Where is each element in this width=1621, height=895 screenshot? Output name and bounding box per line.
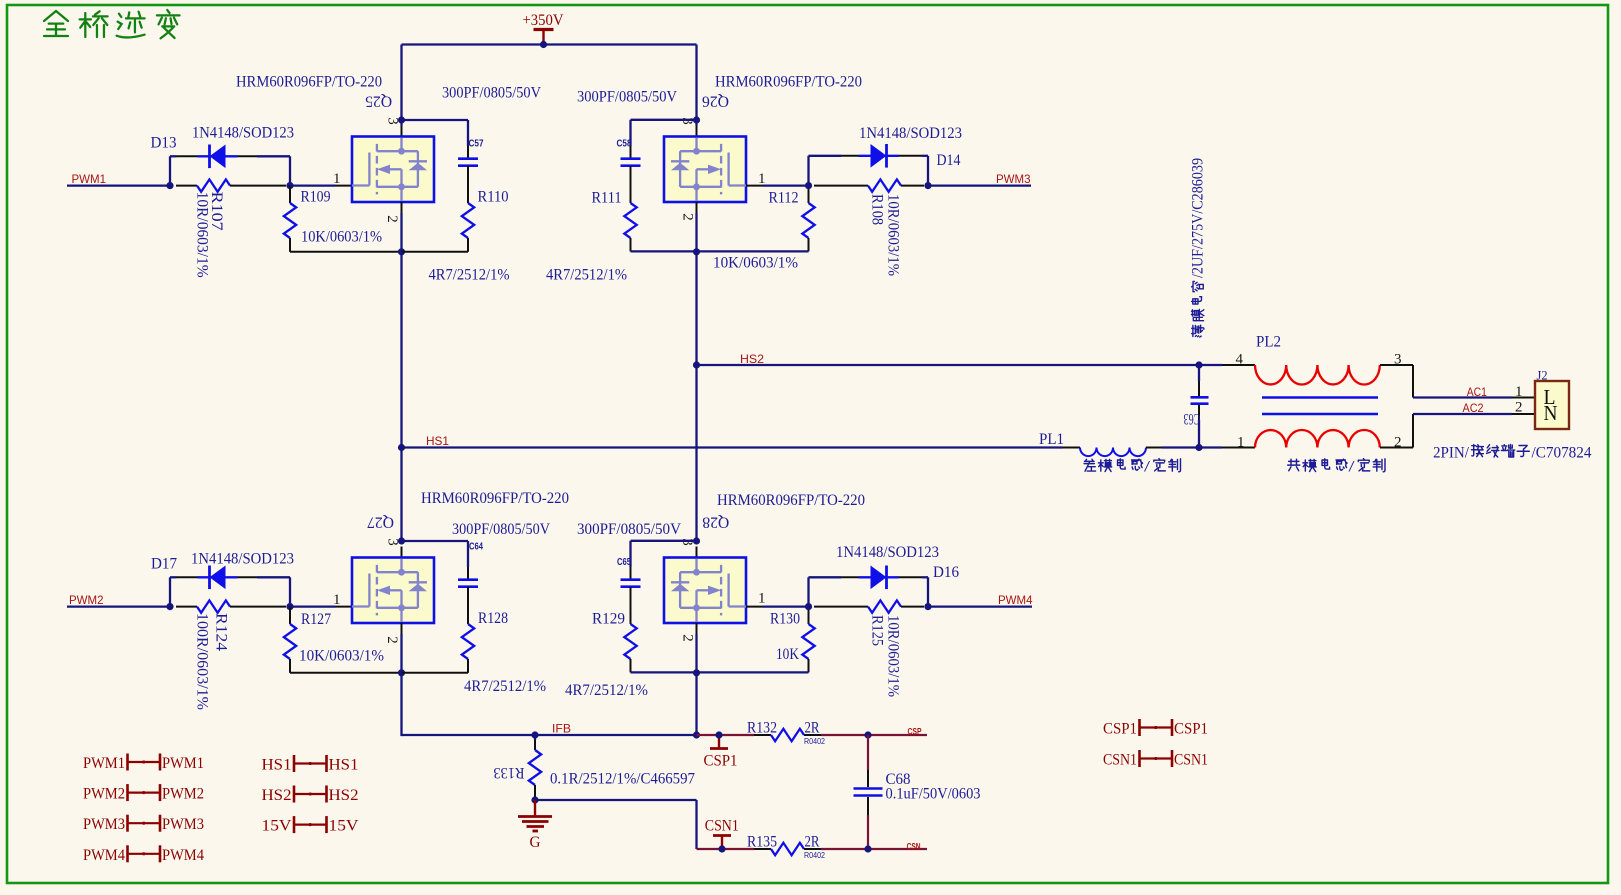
svg-text:1N4148/SOD123: 1N4148/SOD123 [192, 125, 294, 142]
svg-text:300PF/0805/50V: 300PF/0805/50V [577, 89, 677, 106]
resistor R135 [771, 843, 804, 855]
svg-text:2: 2 [680, 213, 696, 221]
junction Q27 source node [398, 669, 405, 676]
svg-text:HS2: HS2 [329, 787, 359, 804]
svg-text:3: 3 [1394, 351, 1402, 367]
svg-text:1: 1 [758, 171, 766, 187]
svg-text:R0402: R0402 [804, 850, 825, 860]
svg-text:1N4148/SOD123: 1N4148/SOD123 [191, 551, 294, 568]
svg-text:Q28: Q28 [702, 514, 729, 531]
power port CSN1 [721, 836, 723, 849]
PL2 core lines [1262, 396, 1378, 399]
svg-text:CSP1: CSP1 [1103, 721, 1137, 738]
svg-text:C57: C57 [469, 139, 484, 150]
wire R133 bottom to CSN path [535, 799, 697, 801]
svg-text:2: 2 [1394, 434, 1402, 450]
resistor R110 [462, 203, 474, 238]
svg-text:4: 4 [1236, 351, 1244, 367]
capacitor C63 [1191, 396, 1209, 399]
junction C68 bottom [864, 845, 871, 852]
PL2 bottom winding [1199, 446, 1222, 448]
svg-text:1: 1 [758, 591, 766, 607]
wire HS2 vertical (Q26 source to Q28 drain) [695, 251, 697, 541]
wire D13 branch verticals [169, 156, 171, 185]
junction C68 top [864, 731, 871, 738]
svg-text:10K/0603/1%: 10K/0603/1% [301, 229, 382, 246]
resistor R109 [289, 186, 291, 203]
svg-text:D16: D16 [933, 564, 959, 581]
junction D16/R125/PWM4 [924, 603, 931, 610]
svg-text:1: 1 [1515, 384, 1523, 400]
capacitor C68 branch (maroon) [867, 735, 869, 770]
svg-text:R135: R135 [747, 834, 777, 851]
diode D16 [859, 576, 899, 578]
svg-text:CSP1: CSP1 [1174, 721, 1208, 738]
svg-text:/: / [1144, 459, 1151, 476]
wire right bridge vertical (drain Q26) [695, 45, 697, 126]
svg-text:3: 3 [385, 117, 401, 125]
junction PL2 pin1 node [1195, 444, 1202, 451]
svg-text:C63: C63 [1184, 410, 1201, 427]
capacitor C64 branch [402, 540, 469, 542]
svg-text:10K/0603/1%: 10K/0603/1% [713, 255, 798, 272]
resistor R133 [534, 735, 536, 740]
wire AC2 [1413, 413, 1512, 415]
svg-text:PWM3: PWM3 [162, 816, 204, 833]
svg-text:R127: R127 [301, 611, 331, 628]
svg-text:HS2: HS2 [262, 787, 292, 804]
junction +350V [540, 41, 547, 48]
svg-text:R133: R133 [494, 764, 525, 781]
resistor R108 [814, 185, 868, 187]
svg-text:4R7/2512/1%: 4R7/2512/1% [546, 267, 627, 284]
svg-text:PWM1: PWM1 [83, 755, 125, 772]
svg-text:PWM2: PWM2 [83, 786, 125, 803]
svg-text:HRM60R096FP/TO-220: HRM60R096FP/TO-220 [717, 492, 865, 509]
svg-text:HS1: HS1 [329, 757, 359, 774]
svg-text:R128: R128 [478, 610, 508, 627]
svg-text:R110: R110 [478, 189, 509, 206]
svg-text:HS1: HS1 [262, 757, 292, 774]
wire PWM3 net lead [928, 184, 1031, 186]
transistor Q26 [664, 137, 746, 203]
wire drain Q27 [401, 547, 403, 558]
svg-text:PWM1: PWM1 [162, 755, 204, 772]
svg-text:PL2: PL2 [1256, 334, 1281, 351]
wire PWM2 net lead [67, 605, 170, 607]
wire D17 branch [169, 577, 171, 606]
junction D14/R108/PWM3 [924, 182, 931, 189]
junction HS1 tap [398, 444, 405, 451]
svg-text:4R7/2512/1%: 4R7/2512/1% [565, 682, 648, 699]
svg-text:CSP1: CSP1 [704, 753, 738, 770]
diode D13 [198, 155, 238, 157]
wire PWM4 net lead [928, 605, 1032, 607]
wire IFB rail [400, 673, 402, 736]
diode D14 [859, 155, 899, 157]
svg-text:PL1: PL1 [1039, 431, 1064, 448]
svg-text:C64: C64 [469, 542, 483, 553]
svg-text:HRM60R096FP/TO-220: HRM60R096FP/TO-220 [421, 490, 569, 507]
svg-text:AC1: AC1 [1467, 385, 1487, 399]
wire Q25 source [401, 202, 403, 213]
junction gate Q28/R130/D16 [805, 603, 812, 610]
svg-text:1N4148/SOD123: 1N4148/SOD123 [836, 544, 939, 561]
wire HS1 vertical (Q25 source to Q27 drain) [400, 252, 402, 541]
svg-text:J2: J2 [1537, 368, 1548, 383]
svg-text:D17: D17 [151, 556, 177, 573]
capacitor C65 branch [631, 540, 697, 542]
wire HS2 horizontal [697, 364, 1200, 366]
svg-text:R111: R111 [592, 190, 622, 207]
capacitor C57 branch [402, 119, 469, 121]
svg-text:10R/0603/1%: 10R/0603/1% [193, 192, 210, 278]
diode D16 branch [807, 577, 809, 606]
svg-text:D14: D14 [937, 152, 961, 169]
svg-text:3: 3 [385, 538, 401, 546]
junction gate Q26/R112/D14 [805, 182, 812, 189]
svg-text:1: 1 [333, 171, 341, 187]
resistor R112 [808, 186, 810, 203]
resistor R129 [624, 624, 636, 659]
junction HS2 tap [693, 361, 700, 368]
svg-text:C58: C58 [617, 139, 632, 150]
resistor R127 [289, 607, 291, 624]
wire Q28 source to IFB [695, 672, 697, 735]
svg-text:/: / [1349, 459, 1356, 476]
svg-text:15V: 15V [329, 818, 359, 835]
capacitor C65 [621, 578, 641, 581]
svg-text:15V: 15V [262, 818, 292, 835]
svg-text:PWM4: PWM4 [162, 847, 204, 864]
svg-text:2: 2 [384, 636, 400, 644]
junction R133 bottom [531, 796, 538, 803]
svg-text:1N4148/SOD123: 1N4148/SOD123 [859, 125, 962, 142]
svg-text:/C707824: /C707824 [1532, 445, 1592, 462]
junction CSP1 stub [715, 731, 722, 738]
svg-text:100R/0603/1%: 100R/0603/1% [193, 613, 210, 710]
svg-text:10K/0603/1%: 10K/0603/1% [299, 648, 384, 665]
capacitor C64 [458, 578, 478, 581]
svg-text:3: 3 [679, 538, 695, 546]
resistor R130 [808, 607, 810, 624]
svg-text:1: 1 [333, 592, 341, 608]
svg-text:2PIN/: 2PIN/ [1433, 445, 1470, 462]
svg-text:PWM2: PWM2 [69, 593, 104, 607]
svg-text:1: 1 [1237, 434, 1245, 450]
power port CSP1 [718, 735, 720, 748]
capacitor C57 [458, 157, 478, 160]
svg-text:N: N [1544, 401, 1558, 425]
svg-text:R124: R124 [213, 613, 230, 651]
svg-text:CSN1: CSN1 [1174, 752, 1208, 769]
svg-text:300PF/0805/50V: 300PF/0805/50V [442, 85, 541, 102]
svg-text:PWM2: PWM2 [162, 786, 204, 803]
svg-text:0.1R/2512/1%/C466597: 0.1R/2512/1%/C466597 [550, 771, 695, 788]
resistor R132 [771, 729, 804, 741]
svg-text:IFB: IFB [552, 722, 571, 736]
svg-text:AC2: AC2 [1463, 401, 1484, 415]
svg-text:R112: R112 [769, 190, 799, 207]
svg-text:300PF/0805/50V: 300PF/0805/50V [452, 521, 550, 538]
wire gate Q26 [746, 185, 763, 187]
svg-text:2R: 2R [805, 834, 820, 851]
junction Q26 drain node [693, 116, 700, 123]
junction Q28 drain node [693, 537, 700, 544]
resistor R111 [624, 203, 636, 238]
junction CSN1 stub [718, 845, 725, 852]
junction Q25 drain node [398, 116, 405, 123]
svg-text:R109: R109 [301, 189, 331, 206]
svg-text:Q27: Q27 [367, 514, 394, 531]
junction D17/R127/gate Q27 [286, 603, 293, 610]
svg-text:CSN1: CSN1 [1103, 752, 1137, 769]
capacitor C58 branch [631, 119, 697, 121]
capacitor C63 branch [1198, 365, 1200, 381]
junction Q28 source node [693, 669, 700, 676]
ground G [534, 800, 536, 817]
svg-text:2: 2 [680, 634, 696, 642]
wire gate Q27 [290, 605, 336, 607]
svg-text:+350V: +350V [523, 12, 564, 29]
label PL1 value 差模电感/定制 [1084, 459, 1142, 472]
resistor R124 [176, 606, 197, 608]
svg-text:R130: R130 [770, 611, 800, 628]
svg-text:R129: R129 [592, 611, 625, 628]
wire CSN rail (maroon) [697, 848, 755, 850]
capacitor C68 [854, 787, 883, 790]
junction D13/R109/gate [286, 182, 293, 189]
svg-text:/2UF/275V/C286039: /2UF/275V/C286039 [1190, 158, 1207, 278]
svg-text:10K: 10K [776, 646, 799, 663]
svg-text:300PF/0805/50V: 300PF/0805/50V [577, 521, 681, 538]
svg-text:3: 3 [679, 117, 695, 125]
wire top rail [402, 43, 697, 45]
svg-text:0.1uF/50V/0603: 0.1uF/50V/0603 [886, 786, 981, 803]
label PL2 value 共模电感/定制 [1288, 459, 1347, 472]
svg-text:D13: D13 [151, 135, 177, 152]
wire drain Q28 [696, 547, 698, 558]
svg-text:PWM1: PWM1 [72, 172, 107, 186]
wire left bridge vertical (drain Q25) [400, 45, 402, 126]
svg-text:4R7/2512/1%: 4R7/2512/1% [429, 267, 510, 284]
svg-text:PWM3: PWM3 [996, 172, 1031, 186]
capacitor C58 [621, 157, 641, 160]
svg-text:2R: 2R [805, 720, 820, 737]
svg-text:PWM4: PWM4 [83, 847, 125, 864]
resistor R107 [176, 185, 197, 187]
junction PWM2/D17/R124 [166, 603, 173, 610]
svg-text:HS2: HS2 [740, 352, 764, 366]
svg-text:R125: R125 [868, 615, 885, 646]
wire PWM1 net lead [67, 184, 170, 186]
svg-text:R108: R108 [868, 194, 885, 225]
svg-text:HRM60R096FP/TO-220: HRM60R096FP/TO-220 [236, 73, 382, 90]
junction Q26 source node [693, 248, 700, 255]
svg-text:R0402: R0402 [804, 736, 825, 746]
svg-text:2: 2 [384, 215, 400, 223]
transistor Q25 [352, 137, 434, 203]
svg-text:CSN1: CSN1 [705, 818, 739, 835]
wire gate Q28 [746, 606, 763, 608]
diode D17 [198, 576, 238, 578]
svg-text:C65: C65 [617, 557, 631, 568]
wire HS1 horizontal [402, 446, 1064, 448]
connector J2 [1535, 381, 1569, 429]
junction R133 top [531, 731, 538, 738]
svg-text:4R7/2512/1%: 4R7/2512/1% [464, 678, 546, 695]
svg-text:HS1: HS1 [426, 434, 449, 448]
svg-text:CSP: CSP [908, 726, 922, 736]
junction Q25 source node [398, 248, 405, 255]
junction IFB/CSP rail [693, 731, 700, 738]
svg-text:Q26: Q26 [702, 93, 729, 110]
svg-text:10R/0603/1%: 10R/0603/1% [884, 194, 901, 276]
inductor PL1 (differential mode) [1080, 448, 1146, 457]
wire AC1 [1413, 396, 1512, 398]
svg-text:HRM60R096FP/TO-220: HRM60R096FP/TO-220 [715, 73, 862, 90]
junction Q27 drain node [398, 537, 405, 544]
transistor Q27 [352, 558, 434, 624]
junction PL2 pin4 node [1195, 361, 1202, 368]
wire gate Q25 [290, 184, 336, 186]
transistor Q28 [664, 558, 746, 624]
vertical film cap label [1190, 158, 1207, 337]
svg-text:G: G [530, 834, 541, 851]
junction PWM1/D13/R107 [166, 182, 173, 189]
svg-text:10R/0603/1%: 10R/0603/1% [884, 615, 901, 697]
resistor R125 [814, 606, 868, 608]
svg-text:R132: R132 [747, 720, 777, 737]
title 全桥逆变 (full-bridge inverter) [44, 10, 180, 38]
svg-text:CSN: CSN [907, 841, 921, 851]
wire CSP rail (maroon) [697, 734, 755, 736]
diode D14 branch [807, 156, 809, 186]
resistor R128 [462, 624, 474, 659]
svg-text:PWM3: PWM3 [83, 816, 125, 833]
svg-text:2: 2 [1515, 400, 1523, 416]
svg-text:PWM4: PWM4 [998, 593, 1033, 607]
svg-text:Q25: Q25 [365, 93, 392, 110]
